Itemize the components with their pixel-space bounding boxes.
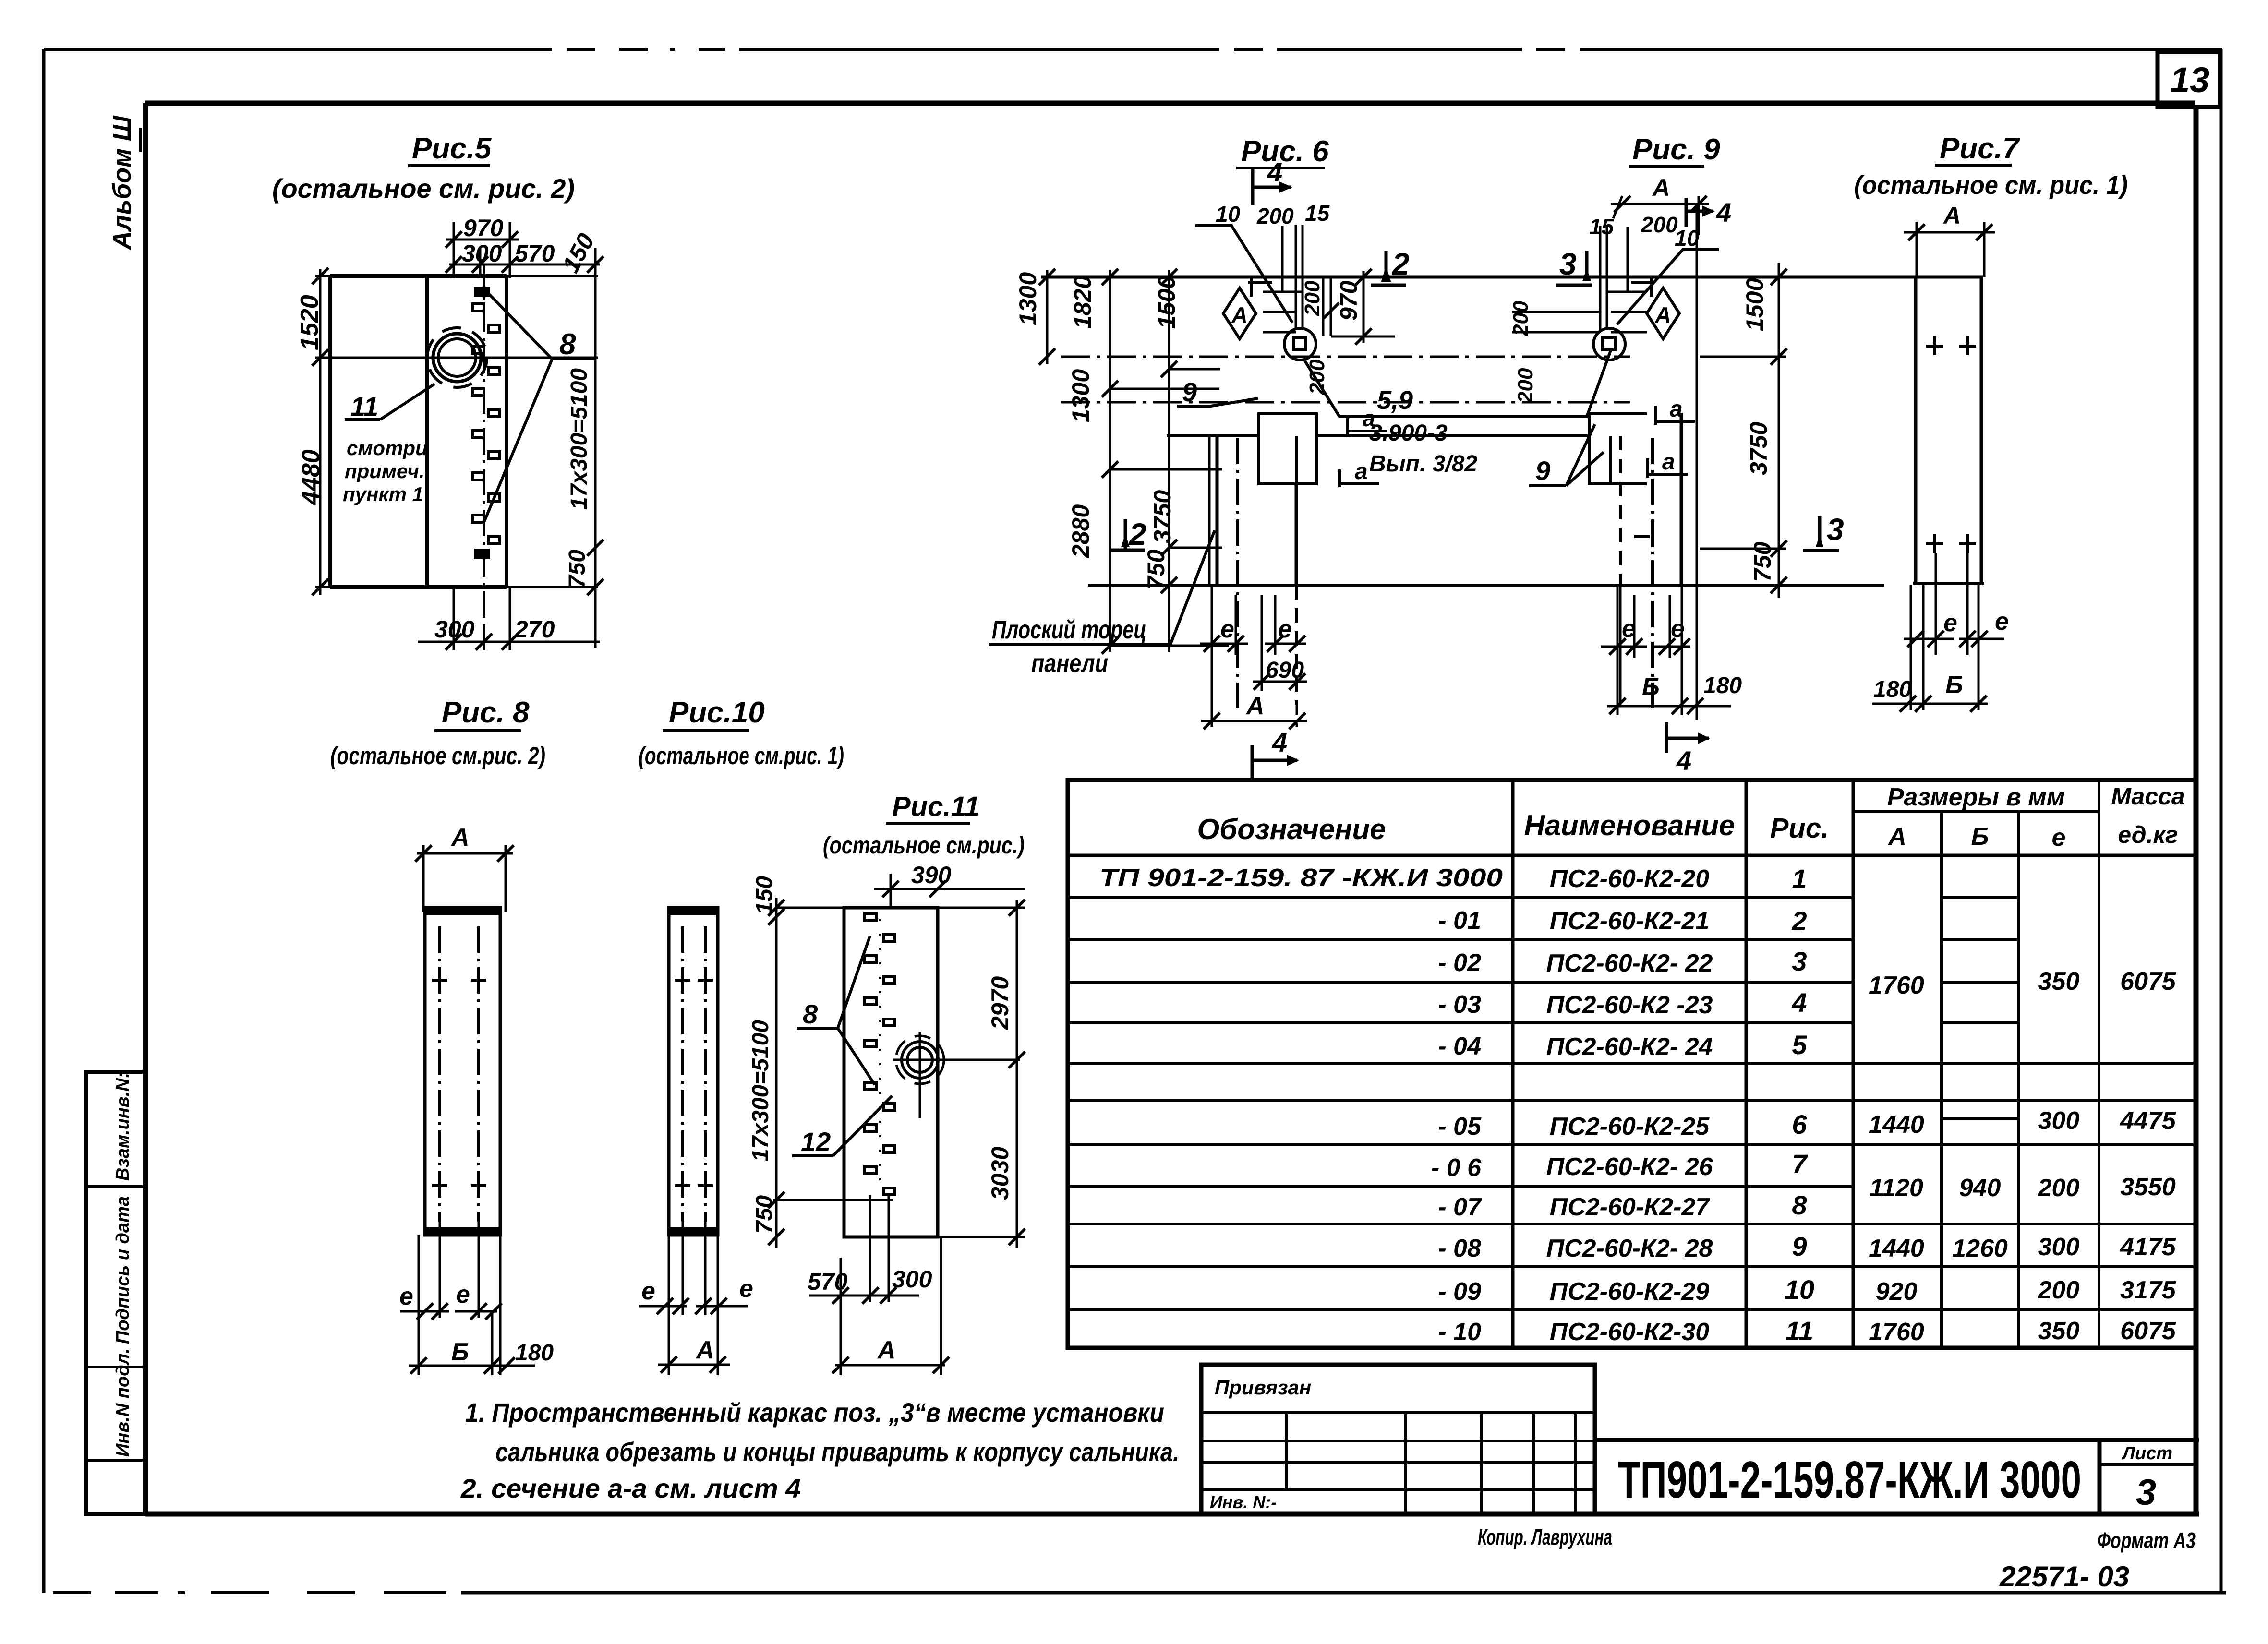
svg-text:ПС2-60-К2-25: ПС2-60-К2-25 — [1550, 1113, 1710, 1140]
fig7 bottom dim 180/B — [1872, 696, 1988, 712]
fig5 right dimension 17x300=5100 and 750 — [587, 286, 603, 648]
fig5 flange circle — [427, 328, 487, 387]
svg-text:2: 2 — [1791, 906, 1807, 936]
fig5 label 11 with note — [345, 384, 434, 420]
fig8 bottom dims e e — [400, 1222, 502, 1375]
svg-text:1300: 1300 — [1014, 272, 1041, 325]
svg-text:690: 690 — [1266, 658, 1304, 683]
title block — [1595, 1440, 2199, 1514]
fig5 top dimension 970 — [446, 222, 603, 286]
svg-text:300: 300 — [892, 1266, 932, 1293]
fig10 panel axes — [683, 926, 705, 1222]
svg-text:4480: 4480 — [297, 449, 325, 505]
svg-text:390: 390 — [911, 862, 952, 888]
svg-text:1820: 1820 — [1069, 276, 1096, 329]
fig6 dim 690 — [1253, 673, 1307, 690]
fig11 bottom dims 570/300 — [809, 1195, 941, 1375]
fig11 flange circle — [893, 1032, 1020, 1118]
fig9 labels 200 200 rotated left — [1509, 300, 1537, 404]
svg-text:ед.кг: ед.кг — [2118, 821, 2178, 848]
svg-text:1440: 1440 — [1869, 1111, 1924, 1139]
svg-text:е: е — [1622, 615, 1636, 643]
svg-text:750: 750 — [565, 550, 590, 588]
fig6 diamond marker A — [1223, 277, 1272, 339]
svg-text:Взам.инв.N:: Взам.инв.N: — [113, 1072, 133, 1181]
fig6 dim A bottom — [1201, 713, 1307, 729]
svg-text:е: е — [1278, 615, 1292, 643]
fig6 labels 10 200 15 — [1216, 201, 1330, 228]
fig7 panel — [1913, 277, 1984, 585]
svg-text:200: 200 — [1305, 359, 1329, 395]
fig6 notch outline — [1259, 414, 1316, 484]
fig10 bottom dim A — [658, 1356, 730, 1373]
fig5 horizontal axis line — [315, 357, 598, 359]
svg-text:9: 9 — [1792, 1231, 1807, 1261]
svg-text:е: е — [399, 1283, 413, 1310]
svg-text:17х300=5100: 17х300=5100 — [748, 1020, 773, 1162]
svg-text:15: 15 — [1589, 214, 1615, 239]
fig10 bottom dims e e — [639, 1222, 748, 1375]
table row texts: designation column — [1099, 864, 1503, 1346]
svg-text:примеч.: примеч. — [345, 460, 425, 482]
svg-text:панели: панели — [1031, 649, 1108, 678]
fig8 title — [330, 696, 545, 770]
svg-text:Инв.N подл.: Инв.N подл. — [113, 1348, 133, 1457]
fig6 dim labels 200/200/970 rotated — [1301, 280, 1362, 395]
fig5 panel axis chain — [483, 265, 485, 626]
wall band top edge — [1041, 276, 1983, 279]
title text — [1618, 1443, 2172, 1513]
svg-text:970: 970 — [1335, 280, 1362, 321]
fig9 label 9 — [1529, 424, 1604, 486]
svg-text:- 0 6: - 0 6 — [1431, 1154, 1482, 1182]
fig11 panel — [844, 908, 938, 1237]
svg-text:е: е — [1995, 608, 2009, 636]
svg-text:Размеры в мм: Размеры в мм — [1887, 783, 2065, 811]
svg-text:17х300=5100: 17х300=5100 — [567, 368, 592, 510]
svg-text:Рис.: Рис. — [1770, 813, 1829, 844]
svg-text:е: е — [1220, 615, 1234, 643]
fig9 notch outline — [1589, 414, 1647, 484]
svg-text:Подпись и дата: Подпись и дата — [113, 1196, 133, 1344]
fig8 panel axes — [440, 926, 479, 1222]
fig8 top dimension A — [415, 845, 514, 912]
svg-text:- 07: - 07 — [1438, 1193, 1482, 1221]
fig7 axis cross ticks — [1926, 336, 1976, 553]
album label: Альбом III (rotated) — [108, 115, 141, 251]
fig6 section marker 2 lower — [1110, 519, 1145, 550]
svg-text:1500: 1500 — [1741, 278, 1768, 331]
fig9 ext lines — [1512, 226, 1647, 332]
svg-text:ПС2-60-К2-29: ПС2-60-К2-29 — [1550, 1278, 1709, 1306]
fig5 label 8 with leaders — [484, 294, 596, 522]
section marker 3 mid — [1803, 516, 1839, 551]
svg-text:22571- 03: 22571- 03 — [1999, 1560, 2129, 1593]
fig10 panel — [669, 908, 718, 1235]
svg-text:570: 570 — [808, 1268, 848, 1295]
svg-text:ПС2-60-К2-30: ПС2-60-К2-30 — [1550, 1318, 1709, 1346]
fig6 leader from 10 — [1195, 226, 1292, 323]
svg-text:Рис. 6: Рис. 6 — [1241, 135, 1329, 168]
svg-text:4475: 4475 — [2120, 1107, 2176, 1135]
fig9 leader from 10 — [1617, 250, 1719, 324]
notes text — [460, 1397, 1179, 1503]
fig11 label 8 — [797, 936, 875, 1085]
svg-text:- 03: - 03 — [1438, 991, 1481, 1019]
svg-text:е: е — [2052, 824, 2066, 852]
fig8 axis cross ticks — [432, 971, 486, 1195]
svg-text:1760: 1760 — [1869, 972, 1924, 999]
svg-text:е: е — [456, 1281, 470, 1308]
svg-text:270: 270 — [514, 616, 555, 643]
svg-text:1300: 1300 — [1067, 369, 1094, 422]
fig7 bottom dims e e — [1904, 553, 2004, 710]
svg-text:Масса: Масса — [2111, 783, 2185, 810]
svg-text:смотри: смотри — [347, 437, 428, 459]
svg-text:(остальное см.рис. 1): (остальное см.рис. 1) — [639, 742, 844, 770]
svg-text:- 02: - 02 — [1438, 949, 1481, 977]
wall band axis chain lines — [1061, 357, 1630, 402]
svg-text:7: 7 — [1792, 1149, 1808, 1179]
svg-text:10: 10 — [1785, 1274, 1814, 1305]
svg-text:9: 9 — [1182, 377, 1197, 407]
svg-text:Вып. 3/82: Вып. 3/82 — [1369, 451, 1477, 477]
fig9 bottom dims e e — [1601, 585, 1690, 715]
svg-text:12: 12 — [801, 1127, 831, 1157]
svg-text:е: е — [1671, 615, 1685, 643]
svg-text:ТП901-2-159.87-КЖ.И 3000: ТП901-2-159.87-КЖ.И 3000 — [1618, 1451, 2081, 1509]
svg-text:ПС2-60-К2- 26: ПС2-60-К2- 26 — [1546, 1153, 1713, 1181]
svg-text:970: 970 — [463, 215, 504, 241]
svg-text:920: 920 — [1876, 1278, 1918, 1306]
svg-text:13: 13 — [2170, 60, 2209, 100]
svg-text:Формат А3: Формат А3 — [2097, 1528, 2196, 1553]
svg-text:11: 11 — [350, 391, 378, 421]
fig6 section marker 4 top — [1253, 169, 1292, 205]
svg-text:Плоский торец: Плоский торец — [992, 615, 1146, 644]
table row texts: name column — [1546, 865, 1713, 1346]
svg-text:сальника обрезать и конц: сальника обрезать и концы приварить к ко… — [495, 1437, 1179, 1467]
svg-text:А: А — [877, 1336, 896, 1364]
svg-text:2880: 2880 — [1067, 504, 1094, 558]
sheet number box 13 — [2158, 52, 2220, 107]
svg-text:Инв. N:-: Инв. N:- — [1210, 1492, 1277, 1512]
svg-text:180: 180 — [1873, 677, 1912, 702]
svg-text:А: А — [1231, 302, 1247, 327]
fig9 lower panel — [1620, 206, 1697, 720]
svg-text:6: 6 — [1792, 1109, 1807, 1140]
floor level line — [1088, 584, 1884, 587]
svg-text:ПС2-60-К2- 28: ПС2-60-К2- 28 — [1546, 1235, 1713, 1262]
svg-text:- 08: - 08 — [1438, 1235, 1481, 1262]
svg-text:- 05: - 05 — [1438, 1113, 1482, 1140]
svg-text:200: 200 — [1301, 280, 1324, 316]
svg-text:2970: 2970 — [987, 976, 1013, 1030]
fig9 bottom dim B/180 — [1607, 698, 1731, 714]
svg-text:А: А — [1652, 174, 1670, 201]
svg-text:3: 3 — [2136, 1472, 2156, 1513]
svg-text:2: 2 — [1392, 247, 1410, 281]
svg-text:1260: 1260 — [1952, 1235, 2008, 1262]
svg-text:ПС2-60-К2- 22: ПС2-60-К2- 22 — [1546, 949, 1713, 977]
fig6 section markers a — [1339, 417, 1387, 487]
svg-text:а: а — [1363, 406, 1375, 432]
svg-text:1: 1 — [1792, 864, 1807, 894]
svg-text:А: А — [1654, 302, 1671, 327]
svg-text:9: 9 — [1535, 456, 1550, 486]
fig11 right dim 2970/3030 — [938, 900, 1025, 1248]
svg-text:Рис.5: Рис.5 — [412, 132, 492, 165]
svg-text:Альбом Ш: Альбом Ш — [108, 115, 136, 251]
svg-text:Рис.7: Рис.7 — [1940, 132, 2020, 165]
svg-text:Лист: Лист — [2121, 1443, 2172, 1464]
fig11 label 12 — [792, 1096, 892, 1156]
fig6 lower panel — [1209, 436, 1296, 708]
svg-text:Рис. 9: Рис. 9 — [1632, 133, 1720, 166]
svg-text:пункт 1: пункт 1 — [343, 483, 423, 505]
fig9 dim A top — [1611, 196, 1709, 235]
fig5 panel outline — [315, 276, 598, 587]
privyazan stamp box — [1201, 1365, 1595, 1514]
svg-text:Рис.11: Рис.11 — [892, 791, 980, 822]
fig9/7 dimension line 1500/3750/750 — [1700, 263, 1787, 598]
svg-text:4: 4 — [1676, 745, 1691, 776]
svg-text:180: 180 — [1703, 673, 1742, 698]
svg-text:300: 300 — [462, 240, 502, 267]
table row texts: fig number column — [1785, 864, 1814, 1346]
svg-text:ТП 901-2-159. 87 -КЖ.И 3000: ТП 901-2-159. 87 -КЖ.И 3000 — [1099, 864, 1503, 892]
svg-text:300: 300 — [2038, 1107, 2080, 1135]
svg-text:а: а — [1662, 449, 1675, 475]
svg-text:3.900-3: 3.900-3 — [1369, 420, 1448, 446]
fig6 section marker 2 top — [1371, 251, 1406, 285]
svg-text:ПС2-60-К2- 24: ПС2-60-К2- 24 — [1546, 1033, 1713, 1061]
fig11 dim 390 — [874, 874, 1025, 908]
fig6 junction circle — [1284, 328, 1316, 360]
svg-text:3550: 3550 — [2120, 1173, 2176, 1201]
fig9 section marker 3 top — [1556, 251, 1592, 285]
svg-text:5: 5 — [1792, 1030, 1807, 1060]
svg-text:4: 4 — [1716, 197, 1731, 228]
svg-text:1760: 1760 — [1869, 1318, 1924, 1346]
svg-text:а: а — [1355, 459, 1368, 484]
fig11 rivet axis dotted — [879, 919, 881, 1193]
svg-text:- 04: - 04 — [1438, 1032, 1481, 1060]
svg-text:200: 200 — [1509, 300, 1532, 336]
svg-text:3175: 3175 — [2120, 1276, 2176, 1304]
table header texts — [1197, 783, 2184, 852]
svg-text:5,9: 5,9 — [1377, 386, 1413, 415]
fig7 dim A top — [1904, 222, 1995, 277]
fig9 labels 15 200 10 — [1589, 212, 1700, 251]
fig10 title — [639, 696, 844, 770]
svg-text:ПС2-60-К2-21: ПС2-60-К2-21 — [1550, 907, 1709, 935]
fig8 panel — [425, 908, 500, 1235]
svg-text:3: 3 — [1559, 247, 1577, 281]
fig6 left dimension chains — [1039, 269, 1229, 654]
privyazan texts — [1210, 1376, 1311, 1512]
fig11 title — [823, 791, 1025, 859]
svg-text:- 10: - 10 — [1438, 1318, 1481, 1346]
svg-text:ПС2-60-К2 -23: ПС2-60-К2 -23 — [1546, 991, 1713, 1019]
svg-text:200: 200 — [1514, 368, 1537, 404]
svg-text:750: 750 — [752, 1195, 777, 1234]
svg-text:3: 3 — [1827, 512, 1844, 547]
svg-text:е: е — [641, 1277, 655, 1305]
svg-text:8: 8 — [1792, 1190, 1807, 1220]
fig11 rivet columns — [865, 913, 895, 1195]
svg-text:300: 300 — [2038, 1233, 2080, 1261]
svg-text:4: 4 — [1272, 727, 1287, 757]
fig6 label 5,9 / 3.900-3 — [1305, 350, 1611, 417]
svg-text:А: А — [1887, 823, 1906, 851]
fig5 title — [272, 132, 575, 204]
svg-text:1120: 1120 — [1870, 1174, 1923, 1202]
svg-text:Б: Б — [1642, 673, 1660, 701]
svg-text:1440: 1440 — [1869, 1235, 1924, 1262]
svg-text:ПС2-60-К2-20: ПС2-60-К2-20 — [1550, 865, 1709, 893]
svg-text:А: А — [695, 1336, 714, 1364]
fig10 axis cross ticks — [675, 980, 713, 1186]
svg-text:е: е — [739, 1275, 753, 1303]
svg-text:(остальное см. рис. 1): (остальное см. рис. 1) — [1854, 171, 2128, 200]
svg-text:10: 10 — [1216, 202, 1241, 227]
svg-text:(остальное см. рис. 2): (остальное см. рис. 2) — [272, 173, 575, 204]
inner frame — [145, 103, 2199, 1514]
svg-text:6075: 6075 — [2120, 1317, 2176, 1345]
svg-text:1500: 1500 — [1153, 276, 1180, 329]
fig9 section markers a — [1648, 406, 1695, 478]
svg-text:200: 200 — [2038, 1276, 2080, 1304]
svg-text:Б: Б — [1945, 671, 1963, 699]
svg-text:750: 750 — [1749, 541, 1776, 582]
svg-text:4: 4 — [1267, 157, 1282, 187]
svg-text:(остальное см.рис. 2): (остальное см.рис. 2) — [330, 742, 545, 770]
svg-text:Привязан: Привязан — [1215, 1376, 1311, 1399]
fig6 970 ext — [1323, 269, 1395, 345]
svg-text:11: 11 — [1785, 1316, 1813, 1346]
svg-text:Рис. 8: Рис. 8 — [442, 696, 530, 729]
fig6 left dim labels — [1014, 272, 1180, 589]
svg-text:2: 2 — [1129, 517, 1146, 552]
svg-text:350: 350 — [2038, 968, 2080, 996]
svg-text:(остальное см.рис.): (остальное см.рис.) — [823, 832, 1025, 859]
svg-text:3: 3 — [1792, 946, 1807, 976]
svg-text:4175: 4175 — [2120, 1233, 2176, 1261]
svg-text:3750: 3750 — [1149, 490, 1176, 543]
fig9 axis cross tick — [1634, 528, 1653, 547]
svg-text:Б: Б — [1971, 823, 1989, 851]
svg-text:1. Пространственный каркас: 1. Пространственный каркас поз. „3“в мес… — [465, 1397, 1164, 1428]
svg-text:3030: 3030 — [987, 1147, 1013, 1200]
fig5 rivet column — [472, 288, 500, 558]
svg-text:300: 300 — [434, 616, 475, 643]
svg-text:е: е — [1943, 609, 1957, 637]
svg-text:940: 940 — [1959, 1174, 2001, 1202]
svg-text:200: 200 — [2038, 1174, 2080, 1202]
svg-text:2. сечение а-а см. лист: 2. сечение а-а см. лист 4 — [460, 1473, 801, 1503]
svg-text:8: 8 — [559, 328, 576, 361]
svg-text:350: 350 — [2038, 1317, 2080, 1345]
fig11 left dim line — [768, 898, 893, 1248]
svg-text:15: 15 — [1305, 201, 1330, 226]
fig6 section marker 4 bottom — [1252, 745, 1299, 780]
svg-text:Обозначение: Обозначение — [1197, 813, 1386, 845]
svg-text:А: А — [1942, 202, 1961, 229]
fig6 ext lines 200/15 — [1263, 225, 1303, 332]
fig11 bottom dim A — [832, 1357, 949, 1373]
svg-text:1520: 1520 — [296, 295, 324, 350]
svg-text:200: 200 — [1256, 204, 1294, 228]
svg-text:200: 200 — [1641, 212, 1678, 237]
svg-text:А: А — [1245, 692, 1265, 720]
fig9 section marker 4 bottom — [1666, 722, 1710, 753]
table row texts: sizes and mass — [1869, 968, 2176, 1346]
fig5 left dimension 1520/4480 — [312, 268, 328, 595]
svg-text:Б: Б — [451, 1338, 469, 1366]
svg-text:а: а — [1670, 396, 1683, 422]
svg-text:4: 4 — [1791, 987, 1807, 1018]
svg-text:750: 750 — [1143, 549, 1170, 589]
fig8 bottom dims B/180 — [409, 1357, 535, 1374]
svg-text:6075: 6075 — [2120, 968, 2176, 996]
fig9 diamond marker A — [1631, 277, 1679, 339]
fig6 label 9 — [1177, 398, 1258, 406]
parts table grid — [1068, 780, 2196, 1348]
svg-text:8: 8 — [803, 999, 818, 1029]
svg-text:- 09: - 09 — [1438, 1278, 1481, 1306]
svg-text:3750: 3750 — [1745, 422, 1772, 475]
svg-text:- 01: - 01 — [1438, 907, 1481, 935]
svg-text:Наименование: Наименование — [1524, 809, 1735, 841]
svg-text:ПС2-60-К2-27: ПС2-60-К2-27 — [1550, 1193, 1710, 1221]
plos torec label — [989, 530, 1215, 644]
fig9 section marker 4 top — [1686, 198, 1715, 227]
svg-text:180: 180 — [515, 1340, 554, 1366]
wall band bottom edge — [1167, 434, 1589, 437]
fig6 bottom dims e e — [1200, 585, 1306, 727]
fig6 title — [1241, 132, 2128, 200]
svg-text:Копир. Лаврухина: Копир. Лаврухина — [1478, 1524, 1612, 1549]
left margin stamp column — [86, 1072, 145, 1514]
svg-text:Рис.10: Рис.10 — [669, 696, 765, 729]
fig5 bottom dimensions 300/270 — [418, 587, 600, 650]
svg-text:А: А — [450, 824, 470, 852]
svg-text:570: 570 — [515, 240, 555, 267]
fig9 junction circle — [1593, 328, 1625, 360]
